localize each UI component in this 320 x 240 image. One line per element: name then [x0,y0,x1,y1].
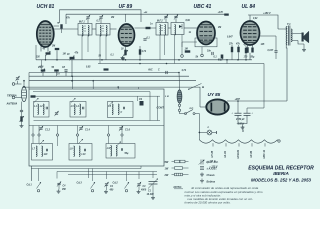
svg-text:Chasis: Chasis [207,174,216,177]
svg-text:Cd.1: Cd.1 [27,184,33,187]
capacitor C-tone [268,47,278,59]
box diode load [195,38,217,47]
trimmer C4a [57,181,61,189]
switch INT [180,110,200,115]
label UCH81 [37,4,55,10]
svg-text:1nF: 1nF [44,154,49,156]
svg-text:1W: 1W [165,167,169,170]
svg-text:2W: 2W [164,174,169,177]
terminal heater end [277,140,280,142]
ground C4b [104,190,108,194]
label +85 [144,12,148,14]
wire MF2 link [168,27,171,29]
wire MF1 to UF89 grid [110,28,117,30]
label C8 [62,67,66,69]
svg-text:27k: 27k [228,44,234,46]
resistor R-ant [19,112,24,122]
wire terminal risers [33,126,122,134]
label 125V [210,166,218,169]
trimmer C-MF2a [164,14,168,22]
legend 2W [164,173,189,177]
wire filter drop [237,101,239,113]
label P lamp [208,127,210,129]
ground mid [121,56,125,60]
wire screen bus [66,13,226,15]
resistor R-osc grid [54,24,63,33]
wire bus AGC [29,75,189,77]
wire antenna coil top [18,76,25,86]
wire T1 primary top [278,27,286,30]
wire tone tap [260,36,277,47]
svg-text:+170: +170 [218,11,224,14]
lamp P [199,130,217,135]
junction AF [178,72,180,74]
legend Bobina [207,181,216,184]
label 2M c [51,46,55,48]
resistor R-AGC2 [54,69,59,76]
svg-text:47k: 47k [74,52,80,55]
terminal [201,54,204,57]
label 0,02 [253,18,258,20]
svg-text:M.F.1: M.F.1 [79,22,85,24]
svg-text:UF 89: UF 89 [250,150,253,157]
wire +180V feed UL84 [248,15,278,29]
label +195V arrow [237,123,245,133]
transformer T1 primary [286,27,287,45]
wire terminal drops [33,136,122,146]
svg-text:480: 480 [109,189,115,192]
label +180V [263,12,271,15]
trimmer C-r3 [119,126,131,132]
note paragraph [185,186,264,204]
potentiometer P-VOL body [177,90,182,103]
capacitor C-pad [64,70,67,76]
svg-text:2M: 2M [217,27,221,29]
wire MF2 sec returns [175,35,183,64]
label 2M b [217,27,221,29]
label AVC [147,70,153,72]
svg-text:Cd.2: Cd.2 [113,182,119,185]
wire divider [29,125,164,127]
label 1k5 [261,44,266,46]
wire switch feed 1 [30,166,32,181]
wire MF1 pri returns [82,35,88,60]
wire T1 primary bottom [285,45,288,101]
label 1M pot [165,96,169,98]
svg-text:UF 89: UF 89 [119,4,133,10]
label 0,1 a [97,21,101,23]
label 2x50uF [235,118,245,121]
svg-text:T.1: T.1 [287,22,291,26]
wire switch drops [39,169,154,182]
label 5k [196,57,199,59]
wire bus screen [98,63,264,65]
wire AF drop [178,73,181,91]
label 0,047 b [227,36,233,39]
terminal [181,55,184,58]
label INT [190,108,194,110]
label 220 [35,57,41,59]
ground UF89 cathode [121,55,126,60]
trimmer C4c [137,182,141,190]
legend trimmer symbol [199,160,205,165]
wire T1 sec to speaker [292,34,304,45]
IF transformer MF2 secondary [171,23,184,36]
legend Ajust [205,161,219,164]
label 2M [110,17,114,19]
wire cathode UCH81 [41,45,48,60]
title line 3 [251,178,312,183]
switch Cd.2 [125,182,130,192]
svg-text:± AJUST.: ± AJUST. [207,168,218,171]
wire rectifier output [227,100,287,102]
switch osc c [109,102,114,107]
svg-text:ANTENA: ANTENA [6,102,18,106]
label Cd.3 [77,182,83,185]
legend 2kV [207,168,218,171]
wire screen filter [247,108,264,113]
svg-text:50µ: 50µ [125,153,130,155]
wire screen drop [65,14,67,24]
title line 2 [273,171,289,176]
wire UF89 anode top [125,14,127,22]
wire padder drops [138,92,158,121]
resistor R-in [31,95,36,97]
svg-text:UY 85: UY 85 [208,92,221,97]
tube V4 UL84 [241,21,260,45]
ground C4a [57,190,61,194]
switch Cd.3 [91,182,96,192]
switch Cd.1 [37,182,42,192]
label 47k b [74,52,80,55]
switch osc b [71,98,76,103]
label 1n b [150,24,153,26]
label C4 480 [109,185,115,192]
svg-text:0,047: 0,047 [268,49,274,52]
tube V1 UCH81 [37,21,54,47]
wire MF2 pri returns [160,35,165,60]
resistor R2 [55,48,60,50]
legend bobina symbol [200,179,204,183]
resistor R-vol feed [185,49,191,53]
label 6,8k [186,20,191,22]
variable capacitor C1 [148,179,158,189]
wire MF1 sec returns [100,35,106,64]
terminal row [32,134,123,136]
legend chasis symbol [200,173,204,177]
label UY85 [208,92,221,97]
label UL84 [242,4,256,10]
label CONT [157,106,165,110]
ground antenna [20,122,24,128]
svg-text:AVC: AVC [147,70,153,72]
wire grid return [57,50,72,76]
resistor R1 [46,51,51,56]
svg-text:5W: 5W [165,161,169,164]
resistor R-a2 [235,43,241,60]
wire rail row1 [34,120,161,122]
svg-text:220: 220 [35,57,41,59]
switch osc e [79,139,84,144]
transformer T1 core [288,26,290,46]
label 0,1 c [111,55,115,57]
svg-text:2M: 2M [51,46,55,48]
capacitor C-F1 [232,113,242,116]
resistor R3 [70,56,75,61]
svg-text:4,7k: 4,7k [141,50,147,53]
capacitor C-pad2 blob [139,99,144,106]
svg-text:4000: 4000 [140,189,147,192]
svg-text:MODELOS B. 252 Y AB. 2053: MODELOS B. 252 Y AB. 2053 [251,178,312,183]
svg-text:+195 V: +195 V [237,123,245,126]
svg-text:Bobina: Bobina [207,181,216,184]
resistor R-af couple [104,68,109,70]
junction dots extra [23,59,239,133]
svg-text:UBC 41: UBC 41 [194,4,212,10]
coil group L11-L12 [106,144,135,159]
label heater UY85 [211,150,214,157]
svg-text:UL 84: UL 84 [242,4,256,10]
junction dots bus [45,59,247,77]
wire bus drops [73,76,139,89]
label NOTA [174,185,184,189]
wire UL84 anode up [249,15,251,22]
capacitor C-ant2 [20,102,23,112]
label 1n d [57,74,60,76]
coil group L5-L6 [108,102,134,118]
label 1M b [63,54,66,56]
wire bus AF [29,73,179,90]
wire diode box leads [182,42,202,54]
legend 2kV symbol [200,167,204,170]
svg-text:IBERIA: IBERIA [273,171,289,176]
capacitor C-AVC [158,70,167,75]
ground C1 [151,196,155,200]
svg-text:NOTA:: NOTA: [174,185,182,189]
svg-text:Cd.3: Cd.3 [77,182,83,185]
svg-text:450: 450 [61,188,67,191]
wire UF89 cathode [125,46,127,50]
label ra [57,22,60,25]
trimmer C-ant [15,76,19,81]
capacitor C-k UL84 [251,48,256,59]
svg-text:UL 84: UL 84 [224,150,227,157]
label 30 a [121,49,124,51]
resistor screen feed [224,14,229,16]
ground UCH81 cathode [40,60,44,68]
svg-text:UY 85: UY 85 [211,150,214,157]
label 4,7k [181,69,187,72]
legend 1W [165,167,189,171]
heater dropper wavy line [199,140,277,143]
IF transformer MF1 secondary [96,24,110,37]
switch osc d [40,140,45,145]
resistor R-a1 [228,44,234,60]
svg-text:6,8k: 6,8k [186,20,191,22]
svg-text:C1.6: C1.6 [125,130,131,132]
ground filter [241,126,245,130]
label T1 [287,22,291,26]
svg-text:0,047: 0,047 [227,36,233,39]
trimmer C-r2 [79,126,91,132]
coil unit enclosure [29,89,164,166]
label 40 b [66,53,70,56]
switch osc a [34,98,39,103]
svg-text:47k: 47k [235,43,241,46]
label C1 16-490 [147,191,155,197]
speaker LS [302,31,309,43]
wire switch rail b [57,172,157,180]
wire varcap ground [152,185,154,197]
trimmer C-MF2b [174,14,178,22]
resistor R-a3 [243,44,249,60]
label 0,1 d [214,57,218,59]
coil group L3-L4 [70,102,86,118]
tube V5 UY85 [200,99,229,114]
tube V3 UBC41 [197,22,215,45]
svg-text:UCH 81: UCH 81 [37,4,55,10]
wire MF2 to UBC41 [184,27,197,29]
svg-text:2M: 2M [110,17,114,19]
capacitor C-af [207,51,213,56]
resistor R-k UF89 [123,50,128,56]
terminal pot bottom [178,103,180,106]
trimmer C-MF1a [86,15,90,24]
svg-text:1M: 1M [63,54,66,56]
svg-text:tímetro de 20.000 ohmios por v: tímetro de 20.000 ohmios por voltio. [185,201,231,205]
svg-text:2×50 µF: 2×50 µF [235,118,245,121]
wire bus 2 [29,80,196,82]
terminal pot lug [178,107,180,112]
wire UL84 cathode [248,46,253,60]
wire switch rail a [31,166,141,178]
wire rail r2a [33,91,150,93]
label 40 a [42,48,46,51]
svg-text:TIERRA: TIERRA [7,94,17,98]
wire switch drop [198,114,200,141]
svg-text:47k: 47k [65,17,71,20]
trimmer C4b [104,182,108,190]
wire filter common [238,115,247,125]
wire anode bus UCH81-UF89 [60,10,142,23]
wire rail below box [68,174,157,176]
svg-text:UBC 41: UBC 41 [263,149,266,158]
capacitor C-e [218,55,224,62]
junction filter [237,100,239,102]
terminal ANTENA [12,96,21,99]
svg-text:10n: 10n [207,51,212,53]
svg-text:470k: 470k [103,69,110,72]
legend 5W [165,160,189,164]
label 110V [208,160,216,163]
label C4 4000 [140,185,147,192]
label UF89 [119,4,133,10]
tube V2 UF89 [119,24,135,46]
label 50 b [52,67,55,69]
title line 1 [248,166,314,172]
trimmer C-t1 [54,111,58,116]
svg-text:C1.4: C1.4 [85,129,91,132]
wire bus mains to rectifier [25,87,200,107]
wire bus drop b [263,64,265,109]
label heater UL84 [224,150,227,157]
svg-text:1M: 1M [185,49,188,51]
label 47k a [65,17,71,20]
ground speaker [302,48,306,52]
label +287 [235,98,241,101]
wire UCH81 anode to MF1 [54,28,79,30]
coil group L1-L2 [34,102,50,118]
heater tap ticks [213,143,265,146]
resistor R-sg UF89 [139,46,147,60]
svg-text:+287: +287 [235,98,241,101]
wire speaker ground lead [303,44,305,48]
legend Chasis [207,174,216,177]
resistor R-AGC1 [41,69,46,77]
label 0,05 [86,67,91,69]
svg-text:+180 V: +180 V [263,12,271,15]
IF transformer MF1 primary [78,22,92,37]
svg-text:4,7k: 4,7k [181,69,187,72]
coil group L7-L8 [32,144,53,161]
wire rail r2b [33,95,160,97]
svg-text:M.F.2: M.F.2 [157,21,163,23]
svg-text:UCH 81: UCH 81 [237,149,240,158]
potentiometer wiper arrow [188,84,202,90]
label Cd.1 [27,184,33,187]
resistor R-k UL84 [244,47,249,58]
IF transformer MF2 primary [156,21,168,36]
capacitor C-F2 [244,113,254,116]
svg-text:0,05: 0,05 [86,67,91,69]
label 470k [103,69,110,72]
resistor R-MF stopper [146,27,151,29]
label UBC41 [194,4,212,10]
trimmer C-r1 [39,126,51,132]
transformer T1 secondary [291,29,292,42]
label heater UBC41 [263,149,266,158]
trimmer C-MF1b [99,15,103,24]
svg-text:Ajust. M.F.: Ajust. M.F. [205,161,219,164]
wire MF1 link [92,28,96,30]
ground C4c [137,190,141,194]
svg-text:INT.: INT. [190,108,194,110]
coil L-ant [21,86,26,101]
svg-text:1 M: 1 M [165,96,169,98]
wire UF89 anode to MF2 [135,27,157,29]
label C4 450 [61,185,67,192]
terminal TIERRA [12,83,21,86]
wire bus drop a [226,60,228,64]
svg-text:C1.2: C1.2 [45,130,51,132]
label 50 a [99,56,102,58]
coil group L9-L10 [69,144,92,161]
svg-text:0,02: 0,02 [253,18,258,20]
label heater UCH81 [237,149,240,158]
switch osc f [117,142,122,147]
label ANTENA [6,102,18,106]
label heater UF89 [250,150,253,157]
label 1n c [189,32,192,34]
capacitor C-k UF89 [143,38,150,41]
label Cd.2 [113,182,119,185]
label 25 a [37,67,41,69]
label TIERRA [7,94,17,98]
label +170 [218,11,224,14]
wire bus HT [36,45,252,60]
